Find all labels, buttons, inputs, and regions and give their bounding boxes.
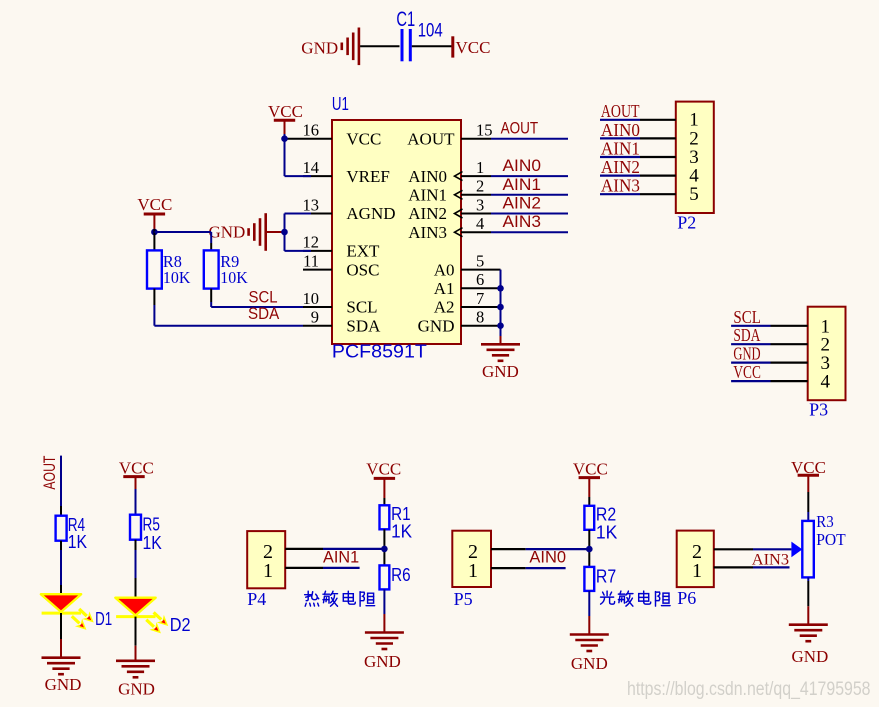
resistor R4 1K xyxy=(56,515,87,552)
svg-text:4: 4 xyxy=(476,214,484,233)
svg-text:AOUT: AOUT xyxy=(501,119,539,138)
svg-text:GND: GND xyxy=(45,675,82,694)
op IC U1 PCF8591T body xyxy=(332,120,461,344)
svg-text:10: 10 xyxy=(303,289,320,308)
pin 14 VREF (left) xyxy=(303,158,390,186)
svg-text:R3: R3 xyxy=(816,512,834,531)
svg-text:AIN3: AIN3 xyxy=(408,223,447,242)
pin 3 AIN2 (right) xyxy=(408,195,491,223)
wire xyxy=(588,530,590,567)
wire P4 pin1 / net label AIN1 xyxy=(285,548,359,568)
svg-text:P4: P4 xyxy=(247,589,266,609)
wire xyxy=(588,591,590,635)
svg-text:GND: GND xyxy=(301,39,338,58)
svg-text:AOUT: AOUT xyxy=(407,129,455,148)
svg-text:AIN2: AIN2 xyxy=(503,194,542,213)
svg-text:SCL: SCL xyxy=(733,307,761,327)
svg-text:VREF: VREF xyxy=(346,167,389,186)
svg-text:5: 5 xyxy=(476,251,484,270)
svg-text:VCC: VCC xyxy=(366,460,401,479)
svg-text:P6: P6 xyxy=(677,588,696,608)
svg-text:15: 15 xyxy=(476,121,493,140)
ground symbol (D1) xyxy=(42,658,81,675)
LED D2 xyxy=(115,598,190,637)
resistor R5 1K xyxy=(130,515,162,554)
svg-text:AIN1: AIN1 xyxy=(601,138,640,158)
wire xyxy=(360,45,399,47)
LED D1 xyxy=(41,594,112,633)
svg-text:AIN0: AIN0 xyxy=(408,167,447,186)
svg-text:GND: GND xyxy=(118,680,155,699)
svg-text:VCC: VCC xyxy=(137,195,172,214)
junction xyxy=(281,229,288,236)
svg-text:A0: A0 xyxy=(434,260,455,279)
P3 pin 4 wire / net label VCC xyxy=(731,362,830,393)
pin 10 SCL (left) xyxy=(303,289,378,317)
power symbol VCC (pin16) xyxy=(274,119,295,122)
net label AOUT / wire xyxy=(491,138,568,140)
wire AGND-EXT xyxy=(285,214,312,251)
svg-text:VCC: VCC xyxy=(573,460,608,479)
svg-text:R6: R6 xyxy=(391,565,411,585)
wire xyxy=(154,229,211,250)
resistor R6 (thermistor) xyxy=(380,565,411,589)
connector P6 body xyxy=(677,531,714,588)
wire xyxy=(588,478,590,506)
svg-text:11: 11 xyxy=(303,251,319,270)
svg-text:GND: GND xyxy=(482,362,519,381)
resistor R7 (photoresistor) xyxy=(584,567,616,591)
wire xyxy=(807,577,809,624)
wire xyxy=(135,540,137,598)
svg-text:10K: 10K xyxy=(163,268,191,287)
pin 12 EXT (left) xyxy=(303,233,381,261)
svg-text:D2: D2 xyxy=(170,615,191,635)
net label AIN3 / wire xyxy=(491,212,568,232)
svg-text:7: 7 xyxy=(476,289,484,308)
svg-text:https://blog.csdn.net/qq_41795: https://blog.csdn.net/qq_41795958 xyxy=(627,678,871,700)
svg-text:VCC: VCC xyxy=(119,459,154,478)
svg-text:GND: GND xyxy=(571,654,608,673)
svg-text:OSC: OSC xyxy=(346,260,379,279)
svg-text:AIN1: AIN1 xyxy=(323,548,359,567)
svg-text:1: 1 xyxy=(692,560,702,582)
P2 pin 1 wire / net label AOUT xyxy=(600,101,699,131)
svg-text:1K: 1K xyxy=(68,532,87,552)
svg-text:P3: P3 xyxy=(809,400,828,420)
svg-text:6: 6 xyxy=(476,270,484,289)
power symbol VCC (D2) xyxy=(123,475,144,478)
junction xyxy=(497,322,504,329)
svg-text:POT: POT xyxy=(816,530,846,549)
pin 8 GND (right) xyxy=(418,308,501,336)
svg-text:10K: 10K xyxy=(220,268,248,287)
ground symbol (P4) xyxy=(365,633,404,650)
ground symbol (IC pin8) xyxy=(481,344,520,361)
svg-text:12: 12 xyxy=(303,233,320,252)
wire xyxy=(267,231,285,233)
P2 pin 4 wire / net label AIN2 xyxy=(600,157,699,187)
wire SCL net xyxy=(211,289,303,307)
svg-text:VCC: VCC xyxy=(268,102,303,121)
wire P5 pin1 / net label AIN0 xyxy=(491,548,566,569)
svg-text:1: 1 xyxy=(468,560,478,582)
svg-text:AIN3: AIN3 xyxy=(601,176,640,196)
svg-text:AIN3: AIN3 xyxy=(503,212,542,231)
svg-text:AIN3: AIN3 xyxy=(752,549,789,568)
svg-text:R5: R5 xyxy=(143,515,160,535)
net label AIN1 / wire xyxy=(491,175,568,195)
wire xyxy=(285,120,312,176)
power ground symbol (GND mid) xyxy=(249,213,266,251)
power symbol VCC (P5) xyxy=(579,476,600,479)
pin 11 OSC (left) xyxy=(303,251,379,279)
svg-text:1K: 1K xyxy=(596,523,618,543)
wire xyxy=(500,336,502,344)
wire xyxy=(60,541,62,595)
svg-text:1: 1 xyxy=(476,158,484,177)
pin 2 AIN1 (right) xyxy=(408,177,491,205)
ground symbol (D2) xyxy=(116,661,155,678)
P2 pin 2 wire / net label AIN0 xyxy=(600,120,699,150)
svg-text:A2: A2 xyxy=(434,298,455,317)
svg-text:AIN2: AIN2 xyxy=(408,204,447,223)
junction xyxy=(586,546,593,553)
svg-text:GND: GND xyxy=(209,223,246,242)
svg-text:SDA: SDA xyxy=(346,316,381,335)
resistor R2 1K xyxy=(584,505,617,543)
power symbol VCC (P4) xyxy=(374,477,395,480)
pin 9 SDA (left) xyxy=(303,308,381,336)
connector P3 body xyxy=(808,307,846,401)
svg-text:3: 3 xyxy=(476,195,484,214)
junction xyxy=(151,229,158,236)
svg-text:104: 104 xyxy=(418,20,443,41)
pin 16 VCC (left) xyxy=(286,121,381,149)
junction xyxy=(381,546,388,553)
svg-text:14: 14 xyxy=(303,158,320,177)
wiper arrow xyxy=(791,542,802,558)
pin 7 A2 (right) xyxy=(434,289,501,317)
ground symbol (P5) xyxy=(570,635,609,652)
pin 6 A1 (right) xyxy=(434,270,501,298)
svg-text:VCC: VCC xyxy=(791,458,826,477)
svg-text:AIN0: AIN0 xyxy=(601,120,640,140)
wire A0-A2/GND bus xyxy=(500,270,502,336)
svg-text:8: 8 xyxy=(476,308,484,327)
svg-text:16: 16 xyxy=(303,121,320,140)
svg-text:PCF8591T: PCF8591T xyxy=(332,342,427,362)
connector P4 body xyxy=(247,531,285,588)
wire P6 pin2 xyxy=(714,548,792,550)
pin 4 AIN3 (right) xyxy=(408,214,491,242)
svg-text:SDA: SDA xyxy=(733,325,760,345)
pin 1 AIN0 (right) xyxy=(408,158,491,186)
pin 5 A0 (right) xyxy=(434,251,501,279)
ground symbol (P6) xyxy=(789,625,828,642)
svg-text:A1: A1 xyxy=(434,279,455,298)
wire xyxy=(383,478,385,505)
svg-text:1K: 1K xyxy=(143,533,162,553)
svg-text:P5: P5 xyxy=(454,589,473,609)
svg-text:AIN0: AIN0 xyxy=(529,548,566,567)
svg-text:VCC: VCC xyxy=(346,129,381,148)
svg-text:P2: P2 xyxy=(677,212,696,232)
svg-text:SDA: SDA xyxy=(248,304,280,323)
svg-text:C1: C1 xyxy=(396,8,415,31)
P3 pin 1 wire / net label SCL xyxy=(731,307,830,338)
pin 15 AOUT (right) xyxy=(407,121,492,149)
svg-text:AIN1: AIN1 xyxy=(408,186,447,205)
svg-text:13: 13 xyxy=(303,195,320,214)
junction xyxy=(497,285,504,292)
svg-text:1K: 1K xyxy=(391,522,412,542)
capacitor C1 value 104 xyxy=(402,29,410,61)
svg-text:EXT: EXT xyxy=(346,242,380,261)
wire SDA net xyxy=(154,289,303,326)
svg-text:1: 1 xyxy=(263,560,273,582)
power symbol VCC (P6) xyxy=(798,474,819,477)
svg-text:AOUT: AOUT xyxy=(40,456,59,490)
resistor R8 10K xyxy=(147,250,191,288)
power symbol VCC (top) xyxy=(451,36,454,57)
net label AIN2 / wire xyxy=(491,194,568,214)
wire xyxy=(383,589,385,632)
power ground symbol (top, GND) xyxy=(342,28,359,66)
wire xyxy=(383,529,385,565)
svg-text:9: 9 xyxy=(311,308,319,327)
svg-text:R2: R2 xyxy=(596,505,616,525)
P3 pin 3 wire / net label GND xyxy=(731,344,830,375)
power symbol VCC (R8/R9) xyxy=(144,213,165,216)
svg-text:AIN1: AIN1 xyxy=(503,175,542,194)
wire P5 pin2 xyxy=(491,548,589,550)
wire P6 pin1 / net label AIN3 xyxy=(714,549,790,568)
svg-text:R7: R7 xyxy=(596,567,616,587)
junction xyxy=(281,135,288,142)
P2 pin 5 wire / net label AIN3 xyxy=(600,176,699,206)
wire P4 pin2 xyxy=(285,548,384,550)
wire xyxy=(60,613,62,658)
net label AIN0 / wire xyxy=(491,156,568,176)
wire xyxy=(153,214,155,229)
svg-text:5: 5 xyxy=(689,184,699,205)
svg-text:AGND: AGND xyxy=(346,204,395,223)
svg-text:GND: GND xyxy=(733,344,760,364)
P3 pin 2 wire / net label SDA xyxy=(731,325,830,356)
svg-text:2: 2 xyxy=(476,177,484,196)
wire xyxy=(807,475,809,521)
svg-text:VCC: VCC xyxy=(456,38,491,57)
connector P2 body xyxy=(676,102,714,213)
svg-text:U1: U1 xyxy=(332,94,349,114)
svg-text:GND: GND xyxy=(364,652,401,671)
svg-text:D1: D1 xyxy=(95,609,112,629)
P2 pin 3 wire / net label AIN1 xyxy=(600,138,699,168)
junction xyxy=(497,304,504,311)
wire xyxy=(60,456,62,516)
svg-text:GND: GND xyxy=(418,316,455,335)
svg-text:SCL: SCL xyxy=(346,298,377,317)
resistor R1 1K xyxy=(380,504,413,542)
svg-text:4: 4 xyxy=(821,372,831,393)
connector P5 body xyxy=(452,531,491,587)
svg-text:VCC: VCC xyxy=(733,362,761,382)
svg-text:AOUT: AOUT xyxy=(601,101,640,121)
resistor R9 10K xyxy=(204,250,249,288)
label 光敏电阻 xyxy=(601,591,615,604)
pin 13 AGND (left) xyxy=(303,195,396,223)
label 热敏电阻 xyxy=(305,591,319,606)
wire xyxy=(135,617,137,661)
svg-text:GND: GND xyxy=(792,647,829,666)
svg-text:AIN2: AIN2 xyxy=(601,157,640,177)
wire xyxy=(134,477,136,515)
wire xyxy=(412,45,452,47)
svg-text:AIN0: AIN0 xyxy=(503,156,542,175)
potentiometer R3 POT xyxy=(802,512,846,578)
